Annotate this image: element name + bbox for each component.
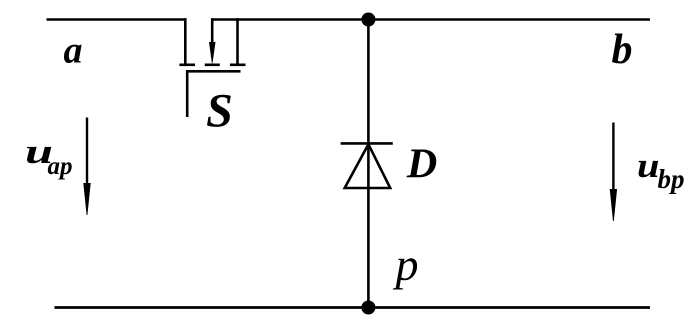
voltage arrow u_ap <box>83 118 90 216</box>
drain contact tick <box>179 64 195 67</box>
channel line <box>186 70 240 73</box>
wire vertical (node to p) <box>367 20 370 308</box>
source lead vertical <box>236 18 239 65</box>
svg-text:a: a <box>64 30 83 72</box>
svg-text:u: u <box>637 146 660 185</box>
svg-text:S: S <box>206 85 233 138</box>
wire bottom (rail p) <box>55 306 651 309</box>
label u_bp <box>637 146 685 194</box>
svg-text:b: b <box>612 27 633 73</box>
body arrowhead <box>209 42 216 63</box>
anode triangle <box>345 144 391 188</box>
node a label <box>64 30 83 72</box>
diode D <box>341 143 393 188</box>
wire top-left (a to switch S drain) <box>47 18 187 21</box>
voltage arrow u_bp <box>610 123 617 222</box>
junction node (top) <box>361 13 375 27</box>
svg-text:bp: bp <box>658 164 685 194</box>
junction node p (bottom) <box>361 301 375 315</box>
svg-text:p: p <box>393 239 419 290</box>
drain lead vertical <box>184 18 187 65</box>
svg-text:ap: ap <box>48 153 73 180</box>
label S <box>206 85 233 138</box>
label u_ap <box>25 132 73 180</box>
MOSFET switch S <box>179 18 245 117</box>
body lead shaft <box>211 18 214 46</box>
label p <box>393 239 419 290</box>
node b label <box>612 27 633 73</box>
label D <box>406 142 437 188</box>
svg-text:D: D <box>406 142 437 188</box>
gate lead <box>186 70 189 117</box>
body contact tick <box>205 64 220 67</box>
cathode bar <box>341 142 393 145</box>
wire top-right (switch S to node b) <box>211 18 650 21</box>
source contact tick <box>230 64 246 67</box>
